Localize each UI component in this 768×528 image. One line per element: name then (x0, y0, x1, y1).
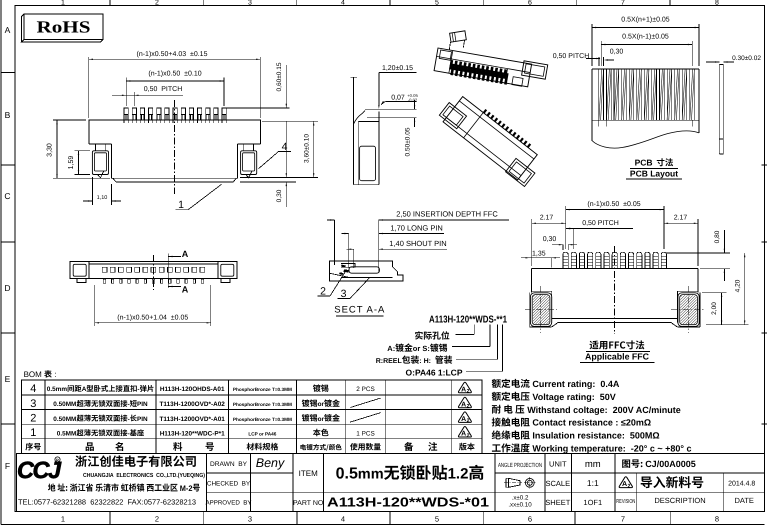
revision triangle title (619, 477, 632, 489)
RoHS logo box (24, 14, 103, 40)
svg-text:2: 2 (467, 403, 470, 409)
svg-text:CHUANGJIA ELECTRONICS CO.,LT: CHUANGJIA ELECTRONICS CO.,LTD.(YUEQING) (83, 472, 205, 479)
svg-text:-: - (128, 416, 130, 423)
svg-text:4: 4 (341, 0, 345, 7)
svg-text:3,60±0.10: 3,60±0.10 (303, 134, 310, 163)
svg-text:Current rating: 0.4A: Current rating: 0.4A (530, 379, 620, 389)
svg-text:DATE: DATE (734, 496, 753, 505)
svg-text:3,30: 3,30 (47, 143, 54, 157)
svg-text:DESCRIPTION: DESCRIPTION (654, 496, 705, 505)
svg-text:2,50 INSERTION DEPTH FFC: 2,50 INSERTION DEPTH FFC (396, 210, 498, 219)
svg-text:8: 8 (715, 515, 719, 524)
section A-A extension lines (333, 220, 335, 265)
svg-text:CJ/00A0005: CJ/00A0005 (645, 459, 696, 469)
svg-text:A: A (5, 25, 11, 35)
svg-text:B: B (5, 110, 11, 120)
svg-text:1: 1 (30, 427, 36, 439)
svg-text:PhosphorBronze T=0.3MM: PhosphorBronze T=0.3MM (233, 402, 292, 407)
svg-text:2.17: 2.17 (674, 214, 688, 221)
svg-text:REVISION: REVISION (616, 498, 635, 505)
dimension 0.30±0.02 (706, 61, 719, 63)
svg-text:1 PCS: 1 PCS (356, 431, 374, 438)
svg-text:(n-1)x0.50+1.04 ±0.05: (n-1)x0.50+1.04 ±0.05 (117, 314, 188, 322)
svg-text:LCP or PA46: LCP or PA46 (248, 432, 276, 437)
svg-text:0.30±0.02: 0.30±0.02 (732, 55, 761, 62)
isometric bottom view pins (483, 109, 487, 114)
section A-A contact details (341, 265, 346, 268)
svg-text:1: 1 (61, 0, 65, 7)
svg-text:1,35: 1,35 (532, 251, 546, 258)
svg-text:0.5X(n-1)±0.05: 0.5X(n-1)±0.05 (622, 33, 669, 41)
svg-text:0.50±0.05: 0.50±0.05 (405, 127, 412, 156)
svg-text:R:REEL: R:REEL (376, 358, 403, 365)
svg-text:A: A (182, 285, 189, 295)
isometric top view latch (450, 31, 467, 42)
svg-text:-: - (128, 401, 130, 408)
dimension 2.50 insertion depth (327, 219, 334, 221)
svg-text:PCB Layout: PCB Layout (630, 169, 678, 179)
svg-text:C: C (4, 191, 10, 201)
svg-text:PIN: PIN (137, 401, 148, 408)
svg-text:2.17: 2.17 (540, 214, 554, 221)
svg-text:0,50 PITCH: 0,50 PITCH (553, 53, 590, 60)
svg-text:0,50 PITCH: 0,50 PITCH (144, 86, 183, 93)
svg-text:E: E (5, 374, 11, 384)
projection symbol (509, 478, 521, 487)
svg-text:2: 2 (155, 515, 159, 524)
dimension (n-1)x0.50+1.04 (94, 285, 96, 326)
dimension 3.60±0.10 (262, 120, 318, 122)
profile inner latch (360, 146, 376, 181)
dimension 0.30 front (240, 181, 296, 183)
svg-text:Voltage rating: 50V: Voltage rating: 50V (530, 392, 616, 402)
dimension 0.5X(n-1) (600, 41, 602, 66)
ffc view caption (590, 340, 599, 349)
svg-text:1,59: 1,59 (68, 156, 75, 170)
svg-text:4,20: 4,20 (734, 279, 741, 292)
isometric bottom view left latch (439, 103, 466, 129)
svg-text:TEL:0577-62321288 62322822 F: TEL:0577-62321288 62322822 FAX:0577-6232… (18, 498, 196, 507)
dimension 1.59 (75, 150, 91, 152)
isometric top view (434, 46, 548, 91)
svg-text:.xx±0.10: .xx±0.10 (508, 502, 532, 509)
svg-text:2: 2 (467, 388, 470, 394)
svg-text:F: F (5, 461, 10, 471)
svg-text:SECT A-A: SECT A-A (334, 305, 385, 316)
svg-text:0,50 PITCH: 0,50 PITCH (582, 220, 619, 227)
pcb layout outline (591, 69, 593, 141)
profile view outline (353, 77, 355, 185)
svg-text:PART NO: PART NO (293, 500, 324, 507)
svg-text:1,40 SHOUT PIN: 1,40 SHOUT PIN (389, 239, 446, 248)
dimension 2.00 (702, 292, 727, 294)
svg-text:0,30: 0,30 (610, 49, 624, 56)
svg-text:A: A (82, 386, 87, 393)
svg-text:4: 4 (30, 383, 36, 395)
revision description (641, 476, 652, 488)
svg-text:A113H-120**WDS-**1: A113H-120**WDS-**1 (429, 315, 507, 326)
svg-text:2: 2 (155, 0, 159, 7)
svg-text:3: 3 (248, 0, 252, 7)
svg-text:H113H-120OHDS-A01: H113H-120OHDS-A01 (160, 386, 225, 393)
svg-text:6: 6 (528, 0, 532, 7)
grid row ticks right (762, 164, 768, 166)
svg-text:or: or (318, 401, 325, 408)
svg-text:2: 2 (30, 412, 36, 424)
ffc view body (532, 268, 698, 270)
svg-text:8: 8 (715, 0, 719, 7)
dimension 2.17 left (531, 219, 533, 266)
section A-A outline (329, 261, 403, 281)
svg-text:7: 7 (621, 515, 625, 524)
svg-text:PhosphorBronze T=0.3MM: PhosphorBronze T=0.3MM (233, 387, 292, 392)
svg-text:SCALE: SCALE (545, 479, 570, 488)
dimension 1.40 shout pin (347, 248, 354, 250)
svg-text:PCB: PCB (635, 158, 653, 168)
svg-text:1OF1: 1OF1 (583, 498, 602, 507)
isometric top view pins (449, 60, 453, 70)
front view right latch (242, 144, 244, 151)
title block frame (17, 453, 765, 511)
svg-text:5: 5 (435, 0, 439, 7)
svg-text:2 PCS: 2 PCS (356, 386, 374, 393)
svg-text:DRAWN BY: DRAWN BY (210, 461, 248, 468)
svg-text:0.5: 0.5 (336, 466, 358, 483)
dimension 3.30 (53, 119, 86, 121)
dimension 1.10 (91, 177, 93, 205)
svg-text:RoHS: RoHS (37, 18, 91, 37)
dimension 0.60±0.15 (226, 107, 290, 109)
svg-text:4: 4 (341, 515, 345, 524)
svg-text:R: R (56, 457, 59, 462)
svg-text:2,00: 2,00 (711, 302, 718, 315)
svg-text:0,80: 0,80 (714, 230, 721, 243)
svg-text:Insulation resistance: 500MΩ: Insulation resistance: 500MΩ (530, 431, 660, 441)
svg-text:Withstand coltage: 200V AC/mi: Withstand coltage: 200V AC/minute (525, 405, 681, 415)
svg-text:Applicable FFC: Applicable FFC (585, 352, 650, 362)
svg-text:or: or (318, 416, 325, 423)
svg-text:UNIT: UNIT (549, 460, 567, 469)
pcb layout pads (599, 69, 604, 120)
ffc view pins (563, 252, 568, 269)
svg-text:1: 1 (61, 515, 65, 524)
spec lines (492, 379, 501, 388)
svg-text:D: D (4, 283, 10, 293)
svg-text:ANGLE PROJECTION: ANGLE PROJECTION (498, 462, 542, 469)
bottom view pins (102, 267, 107, 272)
svg-text:0,30: 0,30 (543, 236, 557, 243)
svg-text:Beny: Beny (256, 456, 285, 470)
ffc strip side view (718, 65, 720, 155)
dimension 0.07 (385, 101, 416, 103)
front view bottom plate (113, 178, 237, 182)
dimension (n-1)x0.50+4.03 (88, 57, 90, 118)
svg-text:T113H-1200OVD*-A02: T113H-1200OVD*-A02 (160, 401, 226, 408)
svg-text:3: 3 (30, 398, 36, 410)
svg-text:mm: mm (358, 467, 384, 483)
svg-text:2: 2 (628, 483, 631, 489)
svg-text:0.50MM: 0.50MM (53, 401, 76, 408)
svg-text:(n-1)x0.50 ±0.10: (n-1)x0.50 ±0.10 (148, 70, 201, 78)
dimension 1.70 long pin (342, 233, 349, 235)
pcb layout wave break (592, 131, 699, 148)
svg-text:(n-1)x0.50+4.03 ±0.15: (n-1)x0.50+4.03 ±0.15 (137, 50, 208, 58)
label hole position (415, 331, 423, 339)
svg-text:H113H-120**WDC-P*1: H113H-120**WDC-P*1 (160, 431, 225, 438)
svg-text:0.5mm: 0.5mm (47, 386, 68, 393)
dimension 0.5X(n+1) (591, 24, 593, 66)
svg-text:0.5MM: 0.5MM (57, 431, 77, 438)
ffc view centerlines (614, 246, 616, 334)
svg-text:2: 2 (467, 432, 470, 438)
svg-text:0,30: 0,30 (276, 189, 283, 202)
svg-text:T113H-1200OVD*-A01: T113H-1200OVD*-A01 (160, 416, 226, 423)
isometric bottom view (437, 89, 547, 187)
svg-text:(n-1)x0.50 ±0.05: (n-1)x0.50 ±0.05 (587, 200, 640, 208)
svg-text:BOM: BOM (24, 370, 44, 379)
ffc view hatched latches (530, 293, 551, 327)
svg-text:SHEET: SHEET (545, 498, 570, 507)
svg-text:APPROVED BY: APPROVED BY (205, 500, 251, 507)
dimension 2.17 right (697, 219, 699, 266)
dimension 1.20±0.15 (379, 72, 417, 74)
svg-text:A113H-120**WDS-*01: A113H-120**WDS-*01 (327, 494, 489, 509)
dimension (n-1)x0.50 ffc (565, 206, 567, 249)
svg-text:.x±0.2: .x±0.2 (512, 495, 529, 502)
svg-text:Working temperature: -20° c ~: Working temperature: -20° c ~ +80° c (530, 444, 692, 454)
svg-text:PhosphorBronze T=0.3MM: PhosphorBronze T=0.3MM (233, 417, 292, 422)
svg-text:1.2: 1.2 (448, 466, 469, 483)
svg-text:: H:: : H: (419, 358, 435, 365)
section A-A slot (349, 267, 379, 273)
drawing number (622, 459, 630, 467)
svg-text:or S:: or S: (413, 344, 430, 353)
svg-text:6: 6 (528, 515, 532, 524)
dimension (n-1)x0.50 ±0.10 (125, 78, 127, 107)
BOM header row (25, 443, 33, 451)
svg-text:1,10: 1,10 (97, 195, 108, 201)
svg-text:A:: A: (387, 344, 395, 353)
isometric bottom view right latch (506, 158, 535, 186)
svg-text:Contact resistance : ≤20mΩ: Contact resistance : ≤20mΩ (530, 418, 651, 428)
svg-text:2: 2 (467, 418, 470, 424)
svg-text:1,20±0.15: 1,20±0.15 (382, 65, 413, 72)
svg-text:0,60±0.15: 0,60±0.15 (276, 62, 283, 91)
bottom view body (70, 262, 237, 279)
svg-text:PIN: PIN (137, 416, 148, 423)
dimension 0.80 (666, 252, 730, 254)
svg-text:5: 5 (435, 515, 439, 524)
svg-text:mm: mm (585, 459, 601, 470)
svg-text:2014.4.8: 2014.4.8 (728, 480, 755, 487)
svg-text::: : (52, 370, 56, 379)
bottom view centerline (153, 255, 155, 290)
company name (75, 455, 86, 466)
svg-text:ITEM: ITEM (299, 469, 318, 478)
svg-text:-: - (128, 431, 130, 438)
section cut line A-A (167, 254, 169, 289)
svg-text:0.50MM: 0.50MM (53, 416, 76, 423)
svg-text:A: A (182, 249, 189, 259)
svg-text:7: 7 (621, 0, 625, 7)
svg-text:M-2: M-2 (180, 484, 193, 493)
svg-text:-0.02: -0.02 (408, 98, 418, 103)
bottom view end caps (73, 264, 86, 276)
BOM table grid (22, 380, 482, 453)
bottom view solder tabs (77, 279, 86, 283)
front view left latch (95, 144, 97, 151)
svg-text:0.5X(n+1)±0.05: 0.5X(n+1)±0.05 (621, 16, 670, 24)
svg-text:3: 3 (248, 515, 252, 524)
svg-text:1,70 LONG PIN: 1,70 LONG PIN (390, 224, 443, 233)
svg-text:O:PA46 1:LCP: O:PA46 1:LCP (406, 367, 463, 377)
svg-text:0,07: 0,07 (391, 94, 405, 101)
dimension 0.50±0.05 (379, 108, 417, 110)
svg-text:1:1: 1:1 (587, 478, 599, 488)
part number leader lines (473, 325, 475, 335)
front view body (89, 120, 260, 144)
dimension 0.50 pitch front (133, 92, 135, 106)
svg-text:CHECKED BY: CHECKED BY (207, 480, 251, 487)
svg-text:-: - (137, 386, 139, 393)
dimension 4.20 (744, 253, 746, 325)
company address (48, 483, 200, 492)
front view pins (124, 108, 128, 120)
svg-text:1: 1 (178, 199, 184, 211)
front view centerline (174, 100, 176, 194)
